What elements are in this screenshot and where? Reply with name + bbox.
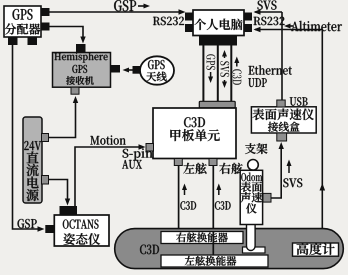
- label AUX: [122, 160, 142, 169]
- label C3D left: [180, 201, 196, 210]
- OCTANS attitude box 姿态仪: [54, 215, 109, 246]
- Odom connector right: [263, 193, 271, 202]
- towfish C3D label: [140, 245, 159, 255]
- deck unit connector port: [174, 159, 182, 166]
- bus label GPS down: [206, 54, 215, 70]
- wire bus middle line: [217, 45, 219, 102]
- wire: 24V power to Hemisphere receiver: [48, 99, 76, 138]
- junction connector bottom: [277, 133, 287, 141]
- wire: GPS splitter to Hemisphere receiver: [49, 27, 83, 42]
- 24V connector upper: [42, 134, 49, 142]
- bracket ring: [248, 160, 259, 171]
- receiver connector top: [76, 44, 86, 53]
- 24V connector lower: [42, 176, 49, 185]
- wire C3D port line: deck unit to starboard transducer: [178, 165, 180, 231]
- label Motion: [90, 135, 125, 144]
- label S-pin: [123, 148, 153, 160]
- probe rod: [247, 223, 256, 251]
- PC connector right-bottom: [244, 24, 252, 32]
- junction box 表面声速仪接线盒: [251, 107, 316, 133]
- starboard transducer box 右舷换能器: [161, 232, 243, 244]
- wire C3D starboard line: deck unit to port transducer: [212, 165, 214, 255]
- wire GSP: GPS splitter to PC RS232: [49, 11, 183, 13]
- towfish body: [115, 229, 344, 269]
- PC base bar: [199, 36, 237, 46]
- label Altimeter: [291, 21, 342, 31]
- splitter connector bottom-right: [28, 37, 38, 45]
- PC connector right-top: [244, 13, 252, 21]
- wire bus GPS line: [202, 45, 204, 102]
- C3D deck unit box 甲板单元: [153, 108, 236, 159]
- label RS232 left of PC: [153, 17, 184, 26]
- altimeter box 高度计: [293, 243, 339, 256]
- label SVS right: [283, 178, 302, 187]
- splitter connector bottom-left: [8, 37, 18, 45]
- junction connector top: [277, 100, 285, 107]
- label C3D right: [215, 201, 231, 210]
- deck unit gray bar: [199, 101, 235, 108]
- bus label SVS both ways: [220, 61, 229, 77]
- wire C3D starboard line overlay through transducer boxes: [212, 232, 214, 255]
- wire SVS: junction box up to PC: [281, 12, 283, 101]
- label SVS top right: [258, 1, 277, 10]
- 24V DC power box 直流电源: [23, 117, 42, 203]
- label RS232 right of PC: [254, 17, 285, 26]
- wire: 24V power to OCTANS: [48, 180, 68, 204]
- wire: antenna to receiver arrow: [125, 69, 133, 71]
- label GSP top: [114, 0, 136, 11]
- wire Motion: OCTANS to C3D deck unit AUX: [75, 147, 143, 206]
- label 右舷: [219, 163, 242, 174]
- probe mounting plate: [243, 247, 266, 253]
- Odom probe box 表面声速仪: [240, 170, 262, 224]
- port transducer box 左舷换能器: [161, 255, 268, 267]
- label 支架: [245, 143, 267, 154]
- GPS antenna 天线: [140, 56, 174, 84]
- arrow up SVS: [287, 160, 292, 167]
- OCTANS connector top: [60, 206, 78, 215]
- label GSP bottom: [18, 219, 37, 228]
- deck unit connector starboard: [209, 159, 217, 166]
- splitter connector mid-right: [41, 23, 50, 31]
- arrow up left C3D: [182, 184, 187, 191]
- receiver connector bottom: [71, 87, 79, 94]
- label USB: [290, 97, 308, 106]
- PC connector left-bottom: [185, 24, 193, 32]
- receiver connector right: [111, 65, 121, 73]
- PC connector left-top: [185, 13, 193, 21]
- label 左舷: [183, 163, 206, 174]
- wire: Odom probe to junction box: [271, 145, 281, 198]
- label Ethernet UDP: [249, 65, 292, 75]
- wire GSP: GPS splitter down-left to OCTANS: [13, 44, 43, 229]
- deck unit connector left: [146, 144, 154, 152]
- wire bus C3D line: [230, 45, 232, 102]
- arrow up right C3D: [216, 184, 221, 191]
- wire Altimeter: altimeter up to PC: [255, 30, 322, 244]
- PC box 个人电脑: [193, 10, 244, 36]
- GPS splitter box 分配器: [4, 6, 41, 37]
- antenna connector: [133, 66, 142, 74]
- Hemisphere GPS receiver box: [53, 53, 111, 88]
- bus label C3D up: [233, 69, 242, 85]
- splitter connector top-right: [41, 8, 50, 16]
- OCTANS connector left: [45, 225, 54, 233]
